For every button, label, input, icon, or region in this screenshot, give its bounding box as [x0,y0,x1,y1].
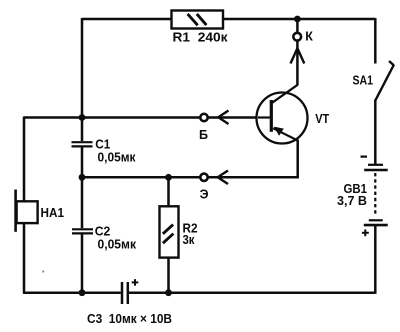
junction dot bus-bottom [79,289,86,296]
node Э test point circle [200,174,207,181]
junction dot R2-emitter [165,174,172,181]
svg-text:3,7 В: 3,7 В [337,194,367,208]
svg-text:VT: VT [315,112,329,126]
svg-text:C3 10мк × 10В: C3 10мк × 10В [87,312,172,326]
wire top right segment [223,18,375,21]
wire right vertical middle [374,100,377,165]
wire left bus vertical lower [81,148,84,229]
svg-text:К: К [305,30,313,44]
junction dot bus-emitter [79,174,86,181]
wire collector vertical lower [296,41,299,85]
label battery minus [361,156,368,158]
svg-text:Э: Э [200,188,209,202]
wire R2 top lead [167,177,170,206]
svg-text:0,05мк: 0,05мк [98,150,137,164]
wire emitter line Э [82,176,299,179]
wire bottom left segment [23,291,121,294]
wire far left vertical lower [23,223,26,293]
wire right vertical bottom [374,225,377,294]
label battery plus [362,229,369,236]
wire R2 bottom lead [167,258,170,294]
transistor VT [257,85,308,144]
svg-text:SA1: SA1 [353,74,374,88]
arrow left on base wire [218,111,228,125]
wire far left vertical upper [23,117,26,202]
svg-text:0,05мк: 0,05мк [98,238,137,252]
svg-text:Б: Б [199,128,208,142]
svg-text:R1 240к: R1 240к [173,31,229,45]
switch SA1 [375,61,394,101]
wire collector vertical [296,18,299,32]
svg-text:HA1: HA1 [41,206,65,220]
scan artifact dot [42,270,44,272]
capacitor C1 [72,142,93,146]
arrow left on emitter wire [218,171,228,185]
capacitor C2 [72,229,93,233]
svg-text:3к: 3к [183,233,196,247]
resistor R2 [160,206,179,257]
telephone HA1 [16,190,38,232]
svg-text:C2: C2 [95,224,111,238]
junction dot R2-bottom [165,289,172,296]
wire base line Б [24,116,271,119]
svg-text:C1: C1 [95,137,110,151]
wire left bus vertical bottom [81,234,84,293]
wire left bus vertical [81,18,84,141]
node К test point circle [293,33,301,41]
wire emitter vertical [296,140,299,179]
wire bottom right segment [129,291,375,294]
wire top left segment [82,18,172,21]
arrow up on collector wire [291,48,305,63]
junction dot top right [294,16,301,23]
resistor R1 [172,11,224,29]
battery GB1 [364,165,388,225]
label C3 plus sign [132,279,139,286]
node Б test point circle [200,114,207,121]
capacitor C3 electrolytic [122,282,128,304]
wire right vertical top [374,18,377,64]
junction dot bus-base [79,114,86,121]
